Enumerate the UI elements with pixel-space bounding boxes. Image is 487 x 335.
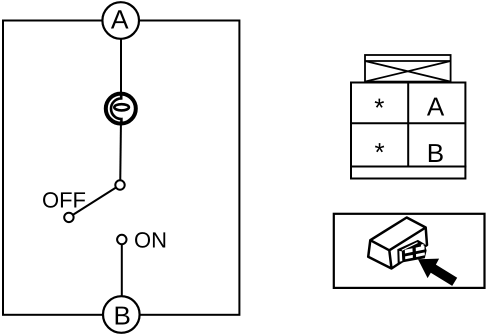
svg-text:*: * bbox=[374, 137, 384, 167]
svg-text:B: B bbox=[114, 300, 131, 330]
svg-text:*: * bbox=[374, 93, 384, 123]
svg-text:A: A bbox=[427, 91, 445, 121]
svg-text:A: A bbox=[111, 5, 129, 35]
svg-text:B: B bbox=[427, 138, 444, 168]
svg-text:ON: ON bbox=[134, 228, 167, 253]
svg-text:OFF: OFF bbox=[42, 187, 86, 212]
